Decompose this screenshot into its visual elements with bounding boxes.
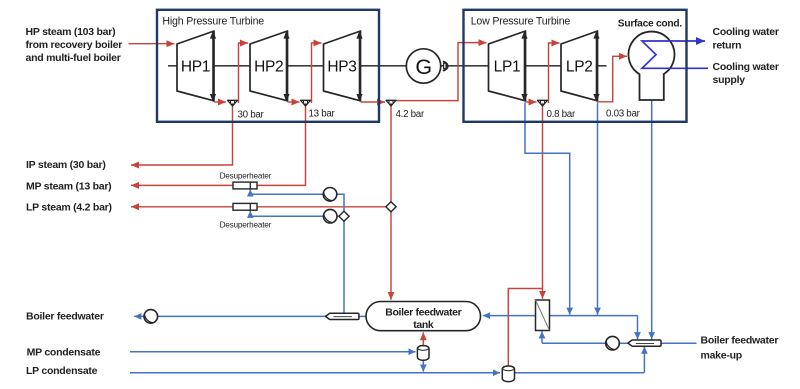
svg-text:MP condensate: MP condensate xyxy=(27,346,101,358)
svg-text:Desuperheater: Desuperheater xyxy=(220,221,272,230)
svg-text:Desuperheater: Desuperheater xyxy=(220,172,272,181)
svg-text:30 bar: 30 bar xyxy=(238,110,265,121)
svg-text:4.2 bar: 4.2 bar xyxy=(396,109,425,120)
svg-text:from recovery boiler: from recovery boiler xyxy=(26,39,123,51)
svg-text:0.03 bar: 0.03 bar xyxy=(606,109,641,120)
svg-text:IP steam (30 bar): IP steam (30 bar) xyxy=(26,159,106,171)
svg-text:tank: tank xyxy=(413,319,434,331)
svg-text:HP1: HP1 xyxy=(181,59,210,76)
svg-text:0.8 bar: 0.8 bar xyxy=(547,109,576,120)
svg-text:LP2: LP2 xyxy=(566,59,593,76)
svg-text:return: return xyxy=(713,39,742,51)
svg-text:Cooling water: Cooling water xyxy=(713,61,779,73)
svg-text:Cooling water: Cooling water xyxy=(713,26,779,38)
svg-text:make-up: make-up xyxy=(701,349,742,361)
svg-text:HP3: HP3 xyxy=(327,59,356,76)
svg-text:HP2: HP2 xyxy=(254,59,283,76)
svg-text:Surface cond.: Surface cond. xyxy=(618,19,683,30)
svg-text:Low Pressure Turbine: Low Pressure Turbine xyxy=(471,16,571,28)
svg-text:MP steam (13 bar): MP steam (13 bar) xyxy=(26,181,111,193)
svg-text:LP1: LP1 xyxy=(494,59,521,76)
svg-text:LP condensate: LP condensate xyxy=(26,365,98,377)
svg-text:supply: supply xyxy=(713,74,746,86)
svg-text:and multi-fuel boiler: and multi-fuel boiler xyxy=(26,52,121,64)
svg-text:Boiler feedwater: Boiler feedwater xyxy=(701,334,779,346)
svg-text:13 bar: 13 bar xyxy=(309,109,336,120)
svg-text:G: G xyxy=(415,55,432,79)
svg-text:Boiler feedwater: Boiler feedwater xyxy=(26,311,104,323)
svg-text:High Pressure Turbine: High Pressure Turbine xyxy=(162,16,264,28)
svg-text:LP steam (4.2 bar): LP steam (4.2 bar) xyxy=(26,202,112,214)
svg-text:Boiler feedwater: Boiler feedwater xyxy=(385,306,461,318)
svg-text:HP steam (103 bar): HP steam (103 bar) xyxy=(26,26,116,38)
